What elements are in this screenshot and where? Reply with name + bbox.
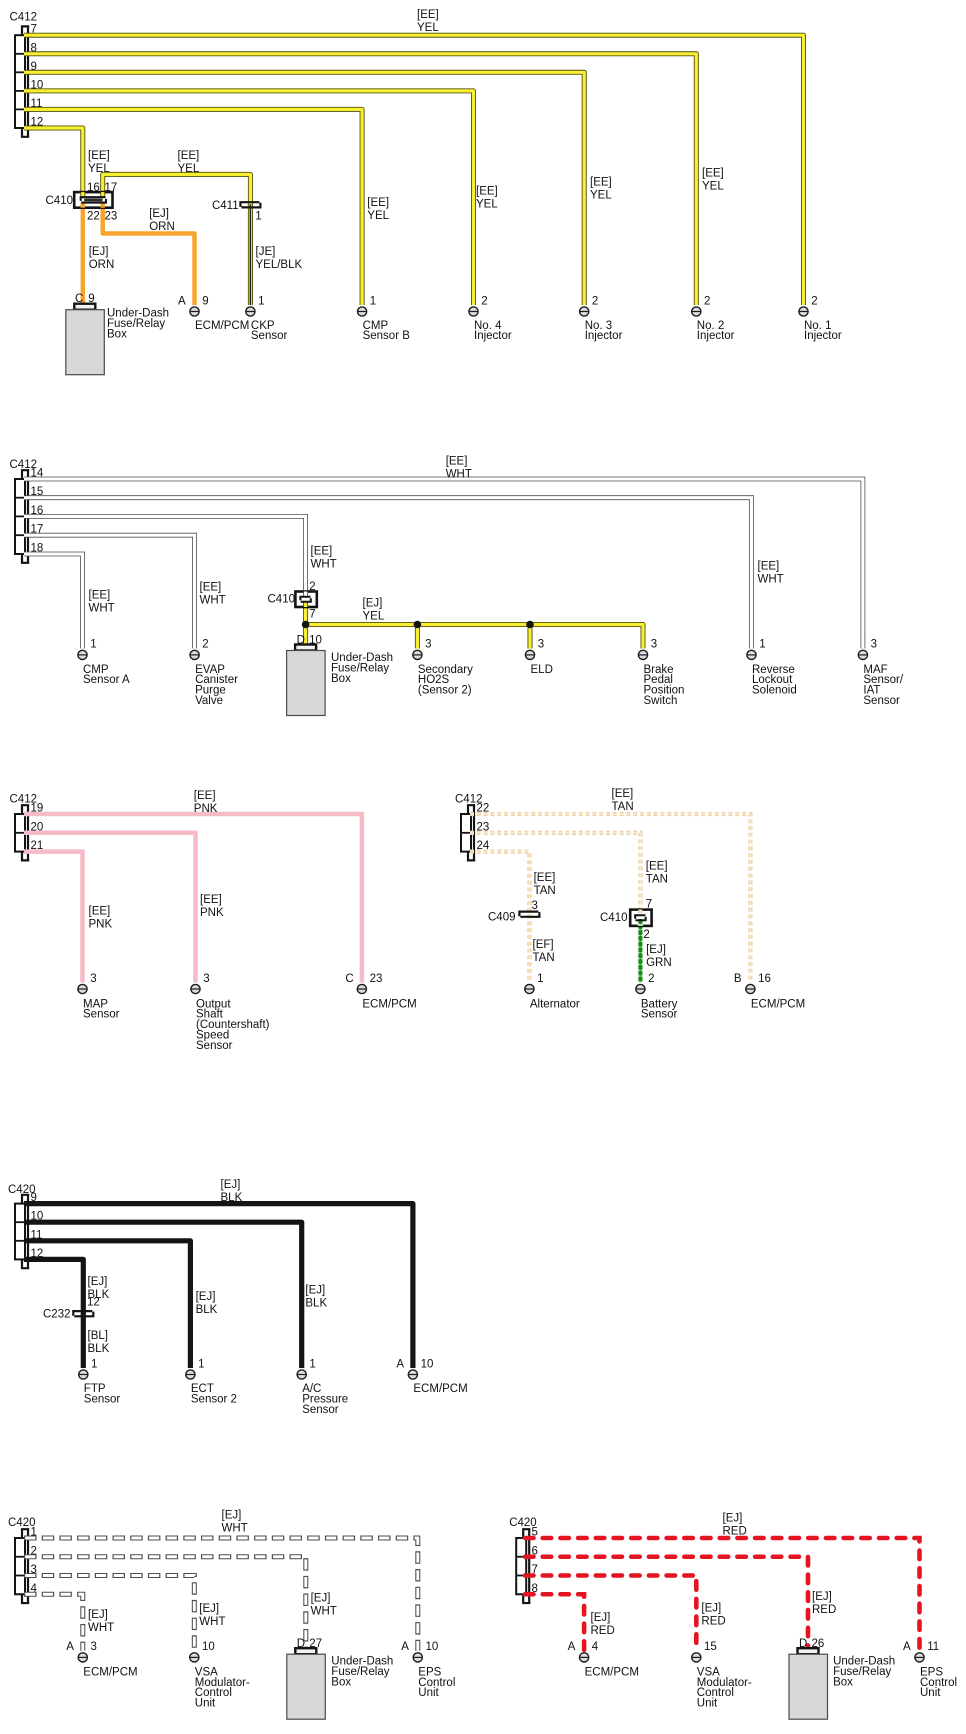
- svg-text:WHT: WHT: [222, 1523, 248, 1535]
- svg-text:[BL]: [BL]: [88, 1330, 108, 1342]
- label [EE] YEL: [367, 197, 389, 222]
- svg-text:PNK: PNK: [200, 907, 224, 919]
- svg-text:15: 15: [704, 1641, 717, 1653]
- label [EF] TAN: [533, 939, 555, 964]
- svg-text:[EJ]: [EJ]: [363, 598, 383, 610]
- svg-text:Injector: Injector: [804, 330, 842, 342]
- wire C412 pin 21 [EE] PNK to MAP sensor: [24, 852, 83, 983]
- terminal EPS control unit A11: [903, 1641, 957, 1699]
- svg-text:[EJ]: [EJ]: [591, 1612, 611, 1624]
- under-dash fuse/relay box terminal C9: [66, 293, 169, 375]
- wire C412 pin 23 [EE] TAN to C410 pin 7: [470, 833, 640, 910]
- label [EE] YEL: [476, 185, 498, 210]
- terminal battery sensor pin 2: [636, 973, 678, 1021]
- wire C410 pin 7 [EJ] YEL bus to under-dash box and sensors: [306, 607, 643, 648]
- terminal secondary HO2S pin 3: [413, 639, 473, 697]
- svg-text:[EE]: [EE]: [702, 168, 724, 180]
- wire C410 pin 2 [EJ] GRN to battery sensor: [638, 926, 643, 983]
- wire C420 pin 12 [EJ] BLK to C232 pin 12: [24, 1259, 83, 1314]
- svg-text:26: 26: [812, 1638, 825, 1650]
- svg-text:9: 9: [202, 295, 208, 307]
- terminal ECM/PCM A3: [66, 1641, 137, 1678]
- terminal ECM/PCM A10: [396, 1358, 467, 1395]
- wire C420 pin 3 [EJ] WHT to VSA modulator: [24, 1576, 194, 1651]
- terminal A/C pressure sensor pin 1: [297, 1358, 348, 1416]
- svg-text:3: 3: [871, 639, 877, 651]
- wire C412 pin 12 [EE] YEL to C410 pin 16: [24, 128, 83, 193]
- svg-text:D: D: [297, 635, 305, 647]
- svg-text:7: 7: [309, 609, 315, 621]
- svg-text:RED: RED: [812, 1604, 836, 1616]
- under-dash fuse/relay box terminal D27: [287, 1638, 394, 1719]
- svg-text:1: 1: [258, 295, 264, 307]
- svg-text:GRN: GRN: [646, 957, 672, 969]
- connector C412 pins 22-24: [455, 793, 490, 860]
- svg-text:Sensor: Sensor: [302, 1404, 339, 1416]
- terminal ECM/PCM B16: [734, 973, 805, 1011]
- svg-text:1: 1: [90, 639, 96, 651]
- svg-text:[EJ]: [EJ]: [89, 246, 109, 258]
- svg-text:ECM/PCM: ECM/PCM: [413, 1383, 467, 1395]
- connector C412 pins 7-12: [10, 11, 44, 136]
- label [EJ] WHT: [199, 1603, 225, 1628]
- under-dash fuse/relay box terminal D10: [287, 635, 393, 716]
- wire C412 pin 8 [EE] YEL to No.2 injector: [24, 54, 696, 305]
- terminal EPS control unit A10: [401, 1641, 455, 1699]
- svg-text:10: 10: [426, 1641, 439, 1653]
- svg-text:3: 3: [203, 973, 209, 985]
- terminal VSA modulator-control unit pin 15: [692, 1641, 752, 1709]
- svg-text:C: C: [75, 293, 83, 305]
- label [EE] WHT: [311, 545, 337, 570]
- svg-text:[EE]: [EE]: [590, 176, 612, 188]
- svg-text:2: 2: [811, 295, 817, 307]
- label [EJ] BLK: [221, 1179, 243, 1204]
- svg-text:YEL: YEL: [367, 210, 389, 222]
- svg-text:Box: Box: [331, 673, 351, 685]
- svg-text:WHT: WHT: [88, 1622, 114, 1634]
- svg-text:[EJ]: [EJ]: [723, 1513, 743, 1525]
- svg-text:1: 1: [309, 1358, 315, 1370]
- svg-text:[EE]: [EE]: [200, 582, 222, 594]
- terminal CMP sensor B pin 1: [358, 295, 411, 342]
- svg-text:C411: C411: [212, 200, 239, 212]
- svg-text:Alternator: Alternator: [530, 998, 580, 1010]
- svg-text:YEL/BLK: YEL/BLK: [256, 259, 303, 271]
- junction dot ELD: [526, 621, 534, 629]
- svg-text:ORN: ORN: [149, 221, 175, 233]
- wire C420 pin 8 [EJ] RED to ECM/PCM A4: [525, 1594, 584, 1651]
- svg-text:Unit: Unit: [697, 1698, 718, 1710]
- wire C412 pin 18 [EE] WHT to CMP sensor A: [24, 554, 83, 648]
- wire C412 pin 9 [EE] YEL to No.3 injector: [24, 72, 584, 305]
- label [EJ] WHT: [222, 1510, 248, 1535]
- wire C420 pin 10 [EJ] BLK to A/C pressure sensor: [24, 1222, 302, 1368]
- under-dash fuse/relay box terminal D26: [789, 1638, 895, 1719]
- wire C409 [EF] TAN to alternator: [527, 915, 531, 983]
- svg-text:Sensor 2: Sensor 2: [191, 1394, 237, 1406]
- svg-text:[EE]: [EE]: [89, 906, 111, 918]
- svg-text:3: 3: [532, 900, 538, 912]
- svg-text:Injector: Injector: [697, 330, 735, 342]
- svg-text:11: 11: [927, 1641, 939, 1653]
- svg-text:[EE]: [EE]: [194, 790, 216, 802]
- svg-text:WHT: WHT: [758, 574, 784, 586]
- svg-text:9: 9: [88, 293, 94, 305]
- svg-text:23: 23: [370, 973, 383, 985]
- svg-text:PNK: PNK: [89, 919, 113, 931]
- terminal ECM/PCM C23: [345, 973, 416, 1011]
- wire C410 pin 23 [EJ] ORN to ECM/PCM A9: [103, 208, 195, 306]
- svg-text:C412: C412: [10, 11, 38, 23]
- svg-text:[EE]: [EE]: [200, 894, 222, 906]
- svg-text:[EE]: [EE]: [646, 861, 668, 873]
- connector C409 pin 3: [488, 900, 539, 924]
- svg-text:Sensor: Sensor: [863, 695, 900, 707]
- svg-text:Sensor: Sensor: [84, 1394, 121, 1406]
- svg-text:[EJ]: [EJ]: [149, 208, 169, 220]
- wire C412 pin 14 [EE] WHT to MAF/IAT sensor: [24, 479, 863, 648]
- label [JE] YEL/BLK: [256, 246, 303, 271]
- terminal ELD pin 3: [525, 639, 552, 676]
- svg-text:RED: RED: [591, 1625, 615, 1637]
- svg-text:RED: RED: [701, 1615, 725, 1627]
- svg-text:22: 22: [87, 210, 100, 222]
- svg-text:[EJ]: [EJ]: [88, 1609, 108, 1621]
- svg-text:YEL: YEL: [178, 163, 200, 175]
- svg-text:Sensor A: Sensor A: [83, 674, 130, 686]
- svg-text:Injector: Injector: [585, 330, 623, 342]
- svg-text:A: A: [568, 1641, 576, 1653]
- connector C420 pins 9-12: [8, 1184, 43, 1268]
- label [EE] WHT: [89, 589, 115, 614]
- terminal MAF/IAT sensor pin 3: [858, 639, 904, 707]
- svg-text:Switch: Switch: [644, 695, 678, 707]
- wire C412 pin 10 [EE] YEL to No.4 injector: [24, 91, 474, 305]
- svg-text:[EE]: [EE]: [612, 788, 634, 800]
- junction dot secondary HO2S: [414, 621, 422, 629]
- connector C410 pins 2/7: [268, 581, 317, 621]
- svg-text:23: 23: [105, 210, 118, 222]
- svg-text:BLK: BLK: [305, 1297, 327, 1309]
- svg-text:C410: C410: [600, 912, 628, 924]
- svg-text:ORN: ORN: [89, 259, 115, 271]
- svg-text:2: 2: [202, 639, 208, 651]
- svg-text:YEL: YEL: [590, 189, 612, 201]
- terminal ECT sensor 2 pin 1: [186, 1358, 237, 1405]
- svg-text:[EJ]: [EJ]: [701, 1602, 721, 1614]
- svg-text:[EE]: [EE]: [476, 185, 498, 197]
- svg-text:[EE]: [EE]: [89, 589, 111, 601]
- label [EE] TAN: [612, 788, 634, 813]
- label [EJ] RED: [812, 1591, 836, 1616]
- label [EJ] WHT: [311, 1593, 337, 1618]
- svg-text:17: 17: [105, 182, 118, 194]
- wire C420 pin 11 [EJ] BLK to ECT sensor 2: [24, 1241, 190, 1368]
- svg-text:A: A: [401, 1641, 409, 1653]
- svg-text:Unit: Unit: [418, 1687, 439, 1699]
- terminal No.1 injector pin 2: [799, 295, 842, 342]
- svg-text:WHT: WHT: [446, 469, 472, 481]
- label [EE] YEL: [178, 150, 200, 175]
- svg-text:TAN: TAN: [533, 952, 555, 964]
- terminal CMP sensor A pin 1: [78, 639, 130, 687]
- svg-text:PNK: PNK: [194, 803, 218, 815]
- svg-text:3: 3: [538, 639, 544, 651]
- svg-text:[EJ]: [EJ]: [196, 1291, 216, 1303]
- label [EE] YEL: [88, 150, 110, 175]
- terminal No.2 injector pin 2: [692, 295, 735, 342]
- wire C420 pin 5 [EJ] RED to EPS control unit A11: [525, 1538, 920, 1651]
- svg-text:A: A: [396, 1358, 404, 1370]
- terminal alternator pin 1: [525, 973, 580, 1011]
- svg-text:2: 2: [481, 295, 487, 307]
- svg-text:[EJ]: [EJ]: [812, 1591, 832, 1603]
- svg-text:A: A: [178, 295, 186, 307]
- label [EJ] BLK: [88, 1276, 110, 1301]
- label [EE] WHT: [758, 561, 784, 586]
- svg-text:Box: Box: [833, 1677, 853, 1689]
- svg-text:(Sensor 2): (Sensor 2): [418, 685, 472, 697]
- terminal ECM/PCM A4: [568, 1641, 639, 1678]
- wire C420 pin 6 [EJ] RED to under-dash box D26: [525, 1557, 808, 1648]
- svg-text:YEL: YEL: [702, 181, 724, 193]
- svg-text:3: 3: [425, 639, 431, 651]
- svg-text:C: C: [345, 973, 353, 985]
- connector C410 pins 7/2: [600, 899, 652, 942]
- svg-text:2: 2: [643, 929, 649, 941]
- svg-text:ECM/PCM: ECM/PCM: [362, 998, 416, 1010]
- junction dot C410 drop: [302, 621, 310, 629]
- svg-text:4: 4: [592, 1641, 599, 1653]
- label [EE] YEL: [417, 9, 439, 34]
- label [EJ] BLK: [196, 1291, 218, 1316]
- svg-text:Unit: Unit: [920, 1687, 941, 1699]
- svg-text:YEL: YEL: [88, 163, 110, 175]
- svg-text:ELD: ELD: [531, 664, 553, 676]
- svg-text:A: A: [903, 1641, 911, 1653]
- svg-text:RED: RED: [723, 1526, 747, 1538]
- svg-text:BLK: BLK: [88, 1289, 110, 1301]
- svg-text:[EE]: [EE]: [88, 150, 110, 162]
- terminal FTP sensor pin 1: [79, 1358, 121, 1405]
- svg-text:1: 1: [370, 295, 376, 307]
- label [EE] YEL: [702, 168, 724, 193]
- CKP sensor label: [251, 320, 288, 342]
- terminal MAP sensor pin 3: [78, 973, 120, 1021]
- terminal reverse lockout solenoid pin 1: [747, 639, 797, 697]
- terminal brake pedal position switch pin 3: [638, 639, 684, 707]
- svg-text:10: 10: [309, 635, 322, 647]
- wire C412 pin 20 [EE] PNK to output shaft speed sensor: [24, 833, 196, 983]
- wire C412 pin 16 [EE] WHT to C410 pin 2: [24, 516, 306, 591]
- svg-text:Sensor: Sensor: [83, 1009, 120, 1021]
- label [EJ] RED: [723, 1513, 747, 1538]
- svg-text:A: A: [66, 1641, 74, 1653]
- svg-text:Sensor: Sensor: [196, 1040, 233, 1052]
- svg-text:7: 7: [646, 899, 652, 911]
- connector C420 pins 1-4: [8, 1517, 38, 1603]
- svg-text:ECM/PCM: ECM/PCM: [751, 998, 805, 1010]
- svg-text:TAN: TAN: [646, 874, 668, 886]
- svg-text:1: 1: [759, 639, 765, 651]
- connector C232 pin 12: [43, 1297, 100, 1321]
- label [EJ] ORN: [89, 246, 115, 271]
- svg-text:10: 10: [202, 1641, 215, 1653]
- svg-text:WHT: WHT: [89, 602, 115, 614]
- svg-text:[EE]: [EE]: [178, 150, 200, 162]
- svg-text:16: 16: [87, 182, 100, 194]
- wire C412 pin 22 [EE] TAN to ECM/PCM B16: [470, 814, 750, 983]
- svg-text:C232: C232: [43, 1309, 71, 1321]
- wire C410 pin 22 [EJ] ORN to under-dash fuse/relay box: [81, 208, 86, 304]
- wire C420 pin 9 [EJ] BLK to ECM/PCM A10: [24, 1204, 413, 1368]
- svg-text:2: 2: [648, 973, 654, 985]
- label [EE] WHT: [200, 582, 226, 607]
- svg-text:D: D: [297, 1638, 305, 1650]
- svg-text:[EE]: [EE]: [534, 872, 556, 884]
- wire C420 pin 2 [EJ] WHT to under-dash box D27: [24, 1557, 306, 1648]
- svg-text:[EF]: [EF]: [533, 939, 554, 951]
- svg-text:Injector: Injector: [474, 330, 512, 342]
- label [EJ] RED: [591, 1612, 615, 1637]
- svg-text:YEL: YEL: [363, 611, 385, 623]
- connector C411 pin 1: [212, 200, 262, 223]
- svg-text:C410: C410: [46, 195, 74, 207]
- svg-text:2: 2: [309, 581, 315, 593]
- svg-text:C410: C410: [268, 594, 296, 606]
- wire C412 pin 17 [EE] WHT to EVAP canister purge valve: [24, 535, 195, 648]
- label [EE] PNK: [89, 906, 113, 931]
- svg-text:3: 3: [651, 639, 657, 651]
- svg-text:TAN: TAN: [612, 801, 634, 813]
- label [EE] TAN: [534, 872, 556, 897]
- label [EE] YEL: [590, 176, 612, 201]
- wire C232 [BL] BLK to FTP sensor: [81, 1314, 86, 1369]
- svg-text:[EJ]: [EJ]: [221, 1179, 241, 1191]
- svg-text:[EJ]: [EJ]: [646, 944, 666, 956]
- svg-text:Sensor: Sensor: [251, 330, 288, 342]
- svg-text:16: 16: [758, 973, 771, 985]
- wire C420 pin 1 [EJ] WHT to EPS control unit A10: [24, 1538, 418, 1651]
- label [EJ] WHT: [88, 1609, 114, 1634]
- svg-text:[EE]: [EE]: [446, 456, 468, 468]
- svg-text:Box: Box: [331, 1677, 351, 1689]
- svg-text:YEL: YEL: [417, 22, 439, 34]
- svg-text:TAN: TAN: [534, 885, 556, 897]
- label [EE] WHT: [446, 456, 472, 481]
- connector C412 pins 14-18: [10, 459, 44, 563]
- svg-text:Solenoid: Solenoid: [752, 685, 797, 697]
- wire C420 pin 7 [EJ] RED to VSA modulator pin 15: [525, 1576, 696, 1651]
- terminal CKP sensor pin 1: [246, 295, 265, 316]
- wire C412 pin 24 [EE] TAN to C409 pin 3: [470, 852, 529, 915]
- svg-text:1: 1: [91, 1358, 97, 1370]
- svg-text:BLK: BLK: [196, 1304, 218, 1316]
- svg-text:ECM/PCM: ECM/PCM: [83, 1666, 137, 1678]
- svg-text:2: 2: [592, 295, 598, 307]
- svg-text:[EE]: [EE]: [311, 545, 333, 557]
- svg-text:C409: C409: [488, 912, 516, 924]
- wire C412 pin 11 [EE] YEL to CMP sensor B: [24, 109, 362, 305]
- svg-text:3: 3: [91, 1641, 97, 1653]
- svg-text:[EE]: [EE]: [417, 9, 439, 21]
- connector C412 pins 19-21: [10, 793, 44, 860]
- svg-text:3: 3: [90, 973, 96, 985]
- svg-text:ECM/PCM: ECM/PCM: [585, 1666, 639, 1678]
- label [EJ] GRN: [646, 944, 672, 969]
- terminal output shaft speed sensor pin 3: [191, 973, 270, 1052]
- svg-text:B: B: [734, 973, 742, 985]
- svg-text:Sensor B: Sensor B: [363, 330, 411, 342]
- svg-text:[EE]: [EE]: [758, 561, 780, 573]
- label [EJ] RED: [701, 1602, 725, 1627]
- svg-text:27: 27: [309, 1638, 322, 1650]
- svg-text:[EE]: [EE]: [367, 197, 389, 209]
- svg-text:1: 1: [198, 1358, 204, 1370]
- svg-text:[JE]: [JE]: [256, 246, 276, 258]
- label [EE] TAN: [646, 861, 668, 886]
- label [BL] BLK: [88, 1330, 110, 1355]
- connector C410 pins 16/17/22/23: [46, 182, 118, 222]
- svg-text:1: 1: [537, 973, 543, 985]
- svg-text:[EJ]: [EJ]: [311, 1593, 331, 1605]
- terminal VSA modulator-control unit pin 10: [190, 1641, 250, 1709]
- wire C412 pin 7 [EE] YEL to No.1 injector: [24, 35, 804, 305]
- terminal ECM/PCM A9: [178, 295, 249, 332]
- svg-text:1: 1: [255, 210, 261, 222]
- svg-text:[EJ]: [EJ]: [88, 1276, 108, 1288]
- label [EE] PNK: [200, 894, 224, 919]
- label [EJ] ORN: [149, 208, 175, 233]
- svg-text:Sensor: Sensor: [641, 1009, 678, 1021]
- svg-text:[EJ]: [EJ]: [305, 1284, 325, 1296]
- svg-text:WHT: WHT: [311, 558, 337, 570]
- wire C412 pin 19 [EE] PNK to ECM/PCM C23: [24, 814, 362, 983]
- svg-text:Box: Box: [107, 329, 127, 341]
- wire C420 pin 4 [EJ] WHT to ECM/PCM A3: [24, 1594, 83, 1651]
- svg-text:D: D: [799, 1638, 807, 1650]
- label [EJ] YEL: [363, 598, 385, 623]
- svg-text:10: 10: [421, 1358, 434, 1370]
- svg-text:WHT: WHT: [199, 1616, 225, 1628]
- svg-text:ECM/PCM: ECM/PCM: [195, 320, 249, 332]
- svg-text:Unit: Unit: [195, 1698, 216, 1710]
- connector C420 pins 5-8: [509, 1517, 538, 1603]
- svg-text:[EJ]: [EJ]: [222, 1510, 242, 1522]
- svg-text:BLK: BLK: [221, 1192, 243, 1204]
- svg-text:2: 2: [704, 295, 710, 307]
- svg-text:BLK: BLK: [88, 1343, 110, 1355]
- svg-text:[EJ]: [EJ]: [199, 1603, 219, 1615]
- wire C412 pin 15 [EE] WHT to reverse lockout solenoid: [24, 498, 752, 649]
- svg-text:WHT: WHT: [200, 595, 226, 607]
- svg-text:Valve: Valve: [195, 695, 223, 707]
- label [EE] PNK: [194, 790, 218, 815]
- wire C411 pin 1 [JE] YEL/BLK to CKP sensor: [248, 204, 253, 305]
- terminal No.4 injector pin 2: [469, 295, 512, 342]
- terminal No.3 injector pin 2: [580, 295, 623, 342]
- wire C410 pin 17 [EE] YEL to C411: [103, 174, 251, 205]
- label [EJ] BLK: [305, 1284, 327, 1309]
- svg-text:YEL: YEL: [476, 198, 498, 210]
- svg-text:WHT: WHT: [311, 1606, 337, 1618]
- terminal EVAP canister purge valve pin 2: [190, 639, 238, 707]
